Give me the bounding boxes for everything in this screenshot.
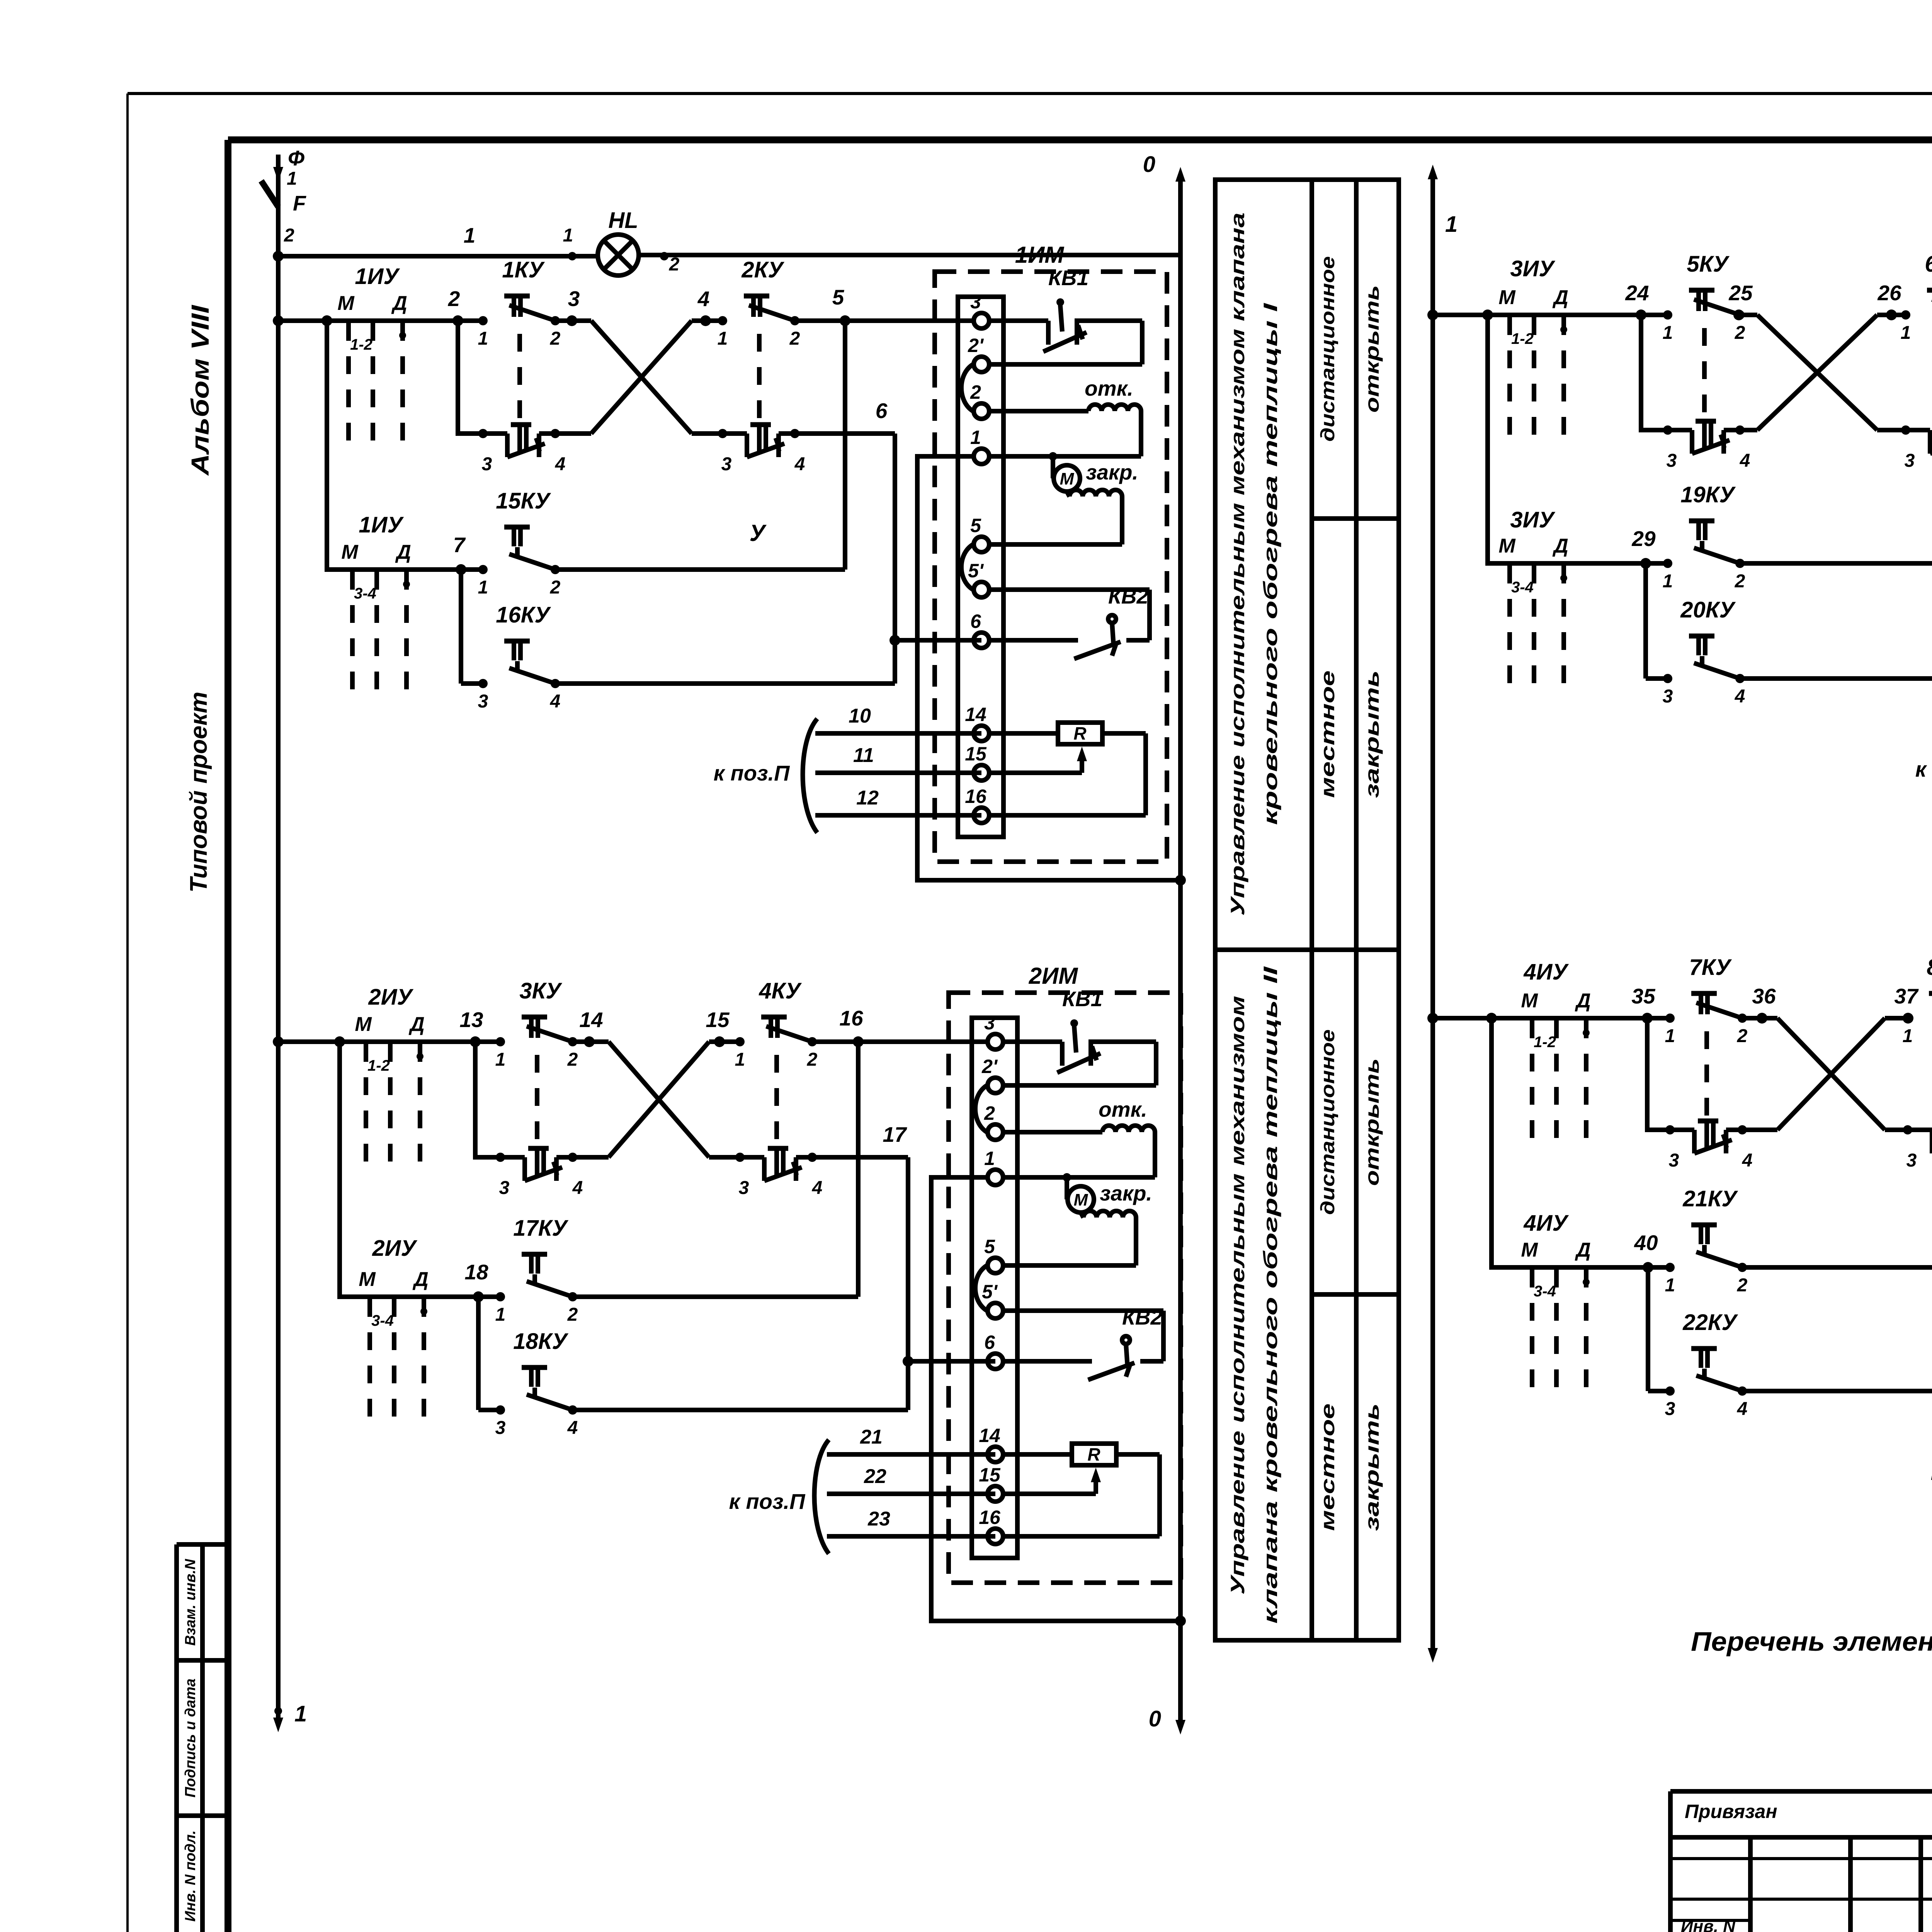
- svg-text:16: 16: [965, 786, 987, 807]
- svg-text:1: 1: [294, 1701, 307, 1726]
- resistor R of 1ИМ: [990, 723, 1146, 815]
- block2 remote open contact 17КУ: [464, 1216, 858, 1325]
- svg-text:клапана кровельного обогрева т: клапана кровельного обогрева теплицы II: [1260, 966, 1281, 1624]
- jumper bracket 2'-2 of 1ИМ: [961, 364, 973, 411]
- block3 remote close contact 20КУ: [1646, 597, 1932, 707]
- svg-text:1: 1: [1663, 323, 1673, 343]
- svg-text:F: F: [293, 191, 306, 215]
- svg-text:1: 1: [287, 168, 297, 189]
- svg-text:М: М: [355, 1013, 372, 1036]
- block1 actuator link 1КУ: [517, 334, 522, 423]
- svg-text:2: 2: [807, 1049, 818, 1070]
- svg-text:17КУ: 17КУ: [513, 1216, 568, 1241]
- svg-text:1: 1: [1901, 323, 1911, 343]
- block 1 feed junction: [273, 315, 284, 326]
- jumper bracket 2'-2 of 2ИМ: [975, 1085, 987, 1132]
- svg-text:КВ2: КВ2: [1108, 584, 1149, 608]
- svg-text:Д: Д: [391, 292, 407, 315]
- svg-text:11: 11: [853, 744, 874, 767]
- block2 contact 3КУ (1-2): [495, 978, 578, 1070]
- svg-text:2: 2: [550, 328, 561, 349]
- svg-text:открыть: открыть: [1361, 1058, 1383, 1186]
- svg-text:3: 3: [1906, 1150, 1917, 1171]
- block4 actuator link 7КУ: [1704, 1031, 1709, 1119]
- svg-text:КВ2: КВ2: [1122, 1305, 1163, 1329]
- svg-text:Д: Д: [395, 541, 411, 563]
- svg-text:3: 3: [721, 454, 732, 474]
- svg-text:8КУ: 8КУ: [1927, 955, 1932, 980]
- svg-text:2: 2: [984, 1102, 995, 1124]
- svg-text:1ИУ: 1ИУ: [355, 264, 400, 289]
- svg-text:20КУ: 20КУ: [1680, 597, 1736, 622]
- block4 remote close contact 22КУ: [1648, 1310, 1932, 1419]
- block4 lower contact row: [1647, 1018, 1777, 1130]
- svg-text:40: 40: [1634, 1231, 1658, 1255]
- terminal 1 return wire of 1ИМ to 0 bus: [917, 456, 1180, 880]
- svg-text:1ИМ: 1ИМ: [1015, 242, 1065, 268]
- left table section 1 text (теплица I): [1227, 213, 1383, 916]
- block1 vertical from node 5 down to remote row: [843, 321, 847, 570]
- svg-text:12: 12: [856, 787, 879, 809]
- svg-text:М: М: [1074, 1190, 1088, 1209]
- svg-text:открыть: открыть: [1361, 285, 1383, 413]
- svg-text:Д: Д: [408, 1013, 425, 1036]
- svg-text:3ИУ: 3ИУ: [1510, 507, 1555, 532]
- block2 actuator link 3КУ: [535, 1055, 539, 1146]
- svg-text:1: 1: [735, 1049, 745, 1070]
- block2 contact 4КУ (3-4): [709, 1148, 822, 1198]
- block1 wire row 1: [278, 287, 591, 326]
- block4 remote open contact 21КУ: [1634, 1186, 1932, 1296]
- svg-text:3: 3: [1905, 451, 1915, 471]
- block4 crossover wires: [1777, 1018, 1885, 1130]
- resistor R of 2ИМ: [1004, 1444, 1160, 1536]
- svg-text:5КУ: 5КУ: [1687, 252, 1730, 277]
- block2 wire row 1: [278, 1008, 609, 1047]
- svg-text:1-2: 1-2: [1511, 330, 1534, 347]
- svg-text:2: 2: [448, 287, 460, 311]
- svg-text:Ф: Ф: [288, 146, 304, 170]
- svg-text:Д: Д: [412, 1268, 429, 1291]
- block3 selector М/Д row 2: [1498, 535, 1568, 683]
- svg-text:Д: Д: [1575, 1239, 1591, 1261]
- svg-text:3: 3: [970, 291, 981, 313]
- svg-text:7КУ: 7КУ: [1689, 955, 1732, 980]
- svg-text:КВ1: КВ1: [1062, 987, 1102, 1011]
- actuator unit 1ИМ dashed enclosure: [935, 272, 1167, 862]
- svg-text:R: R: [1087, 1444, 1100, 1464]
- к поз. wires 32,33,34 of block 3: [1915, 699, 1932, 827]
- block1 wire 6 lower row to return vertical: [779, 399, 895, 684]
- svg-text:14: 14: [979, 1425, 1000, 1446]
- block2 wire 17 lower row to return vertical: [796, 1122, 908, 1410]
- coil отк. of 2ИМ: [1004, 1097, 1155, 1177]
- svg-text:23: 23: [867, 1508, 890, 1530]
- svg-text:отк.: отк.: [1085, 376, 1133, 400]
- svg-text:22КУ: 22КУ: [1682, 1310, 1738, 1335]
- block1 contact 1КУ (1-2): [478, 257, 561, 349]
- svg-text:1: 1: [1445, 212, 1458, 237]
- svg-text:HL: HL: [608, 208, 638, 233]
- svg-text:Взам. инв.N: Взам. инв.N: [182, 1558, 199, 1646]
- terminal strip of 2ИМ: [972, 1018, 1017, 1558]
- block4 node 37 and contact 8КУ (1-2): [1885, 955, 1932, 1046]
- svg-text:6: 6: [984, 1332, 995, 1353]
- block4 node 36: [1752, 984, 1776, 1024]
- svg-text:М: М: [341, 541, 359, 563]
- svg-text:кровельного обогрева теплицы: кровельного обогрева теплицы I: [1260, 303, 1281, 825]
- svg-text:1: 1: [1665, 1026, 1675, 1046]
- svg-text:6: 6: [876, 399, 888, 423]
- block4 contact 8КУ (3-4): [1885, 1121, 1932, 1171]
- svg-text:2ИУ: 2ИУ: [368, 985, 413, 1010]
- svg-text:М: М: [359, 1268, 376, 1291]
- svg-text:15: 15: [706, 1008, 730, 1032]
- block4 contact 7КУ (3-4): [1665, 1121, 1752, 1171]
- svg-text:3: 3: [1667, 451, 1677, 471]
- limit switch КВ2 of 1ИМ: [990, 584, 1150, 659]
- svg-text:1: 1: [718, 328, 728, 349]
- svg-text:2: 2: [550, 577, 561, 598]
- svg-text:1-2: 1-2: [1534, 1034, 1556, 1051]
- svg-text:6КУ: 6КУ: [1925, 252, 1932, 277]
- svg-text:4: 4: [812, 1178, 823, 1198]
- block2 lower contact row: [475, 1042, 609, 1157]
- block2 selector М/Д row 1: [355, 1013, 424, 1162]
- svg-text:15КУ: 15КУ: [496, 488, 551, 514]
- svg-text:2': 2': [968, 335, 984, 356]
- wire into terminal 3 of 2ИМ: [858, 1039, 995, 1044]
- block3 contact 6КУ (3-4): [1877, 421, 1932, 471]
- block3 wire row 1: [1433, 281, 1757, 320]
- signal lamp HL: [563, 208, 680, 276]
- svg-text:4: 4: [555, 454, 566, 474]
- svg-text:Д: Д: [1552, 535, 1568, 557]
- block1 lower contact row: [458, 321, 591, 434]
- svg-text:У: У: [750, 520, 767, 546]
- block2 remote close contact 18КУ: [478, 1329, 908, 1438]
- svg-text:2: 2: [567, 1049, 578, 1070]
- left main bus 1 vertical: [273, 256, 307, 1732]
- svg-text:15: 15: [979, 1464, 1001, 1486]
- motor M of 1ИМ: [990, 452, 1080, 492]
- node 2 junction: [273, 251, 284, 262]
- svg-text:3: 3: [482, 454, 492, 474]
- wire 1 to lamp: [278, 223, 598, 256]
- block2 node 15 and contact 4КУ (1-2): [706, 978, 817, 1070]
- svg-text:25: 25: [1728, 281, 1753, 305]
- block4 branch feed to remote row: [1486, 1013, 1674, 1267]
- svg-text:М: М: [1521, 990, 1538, 1012]
- block3 remote open contact 19КУ: [1631, 482, 1932, 592]
- svg-text:Инв. N: Инв. N: [1681, 1917, 1736, 1932]
- block2 vertical node 18 down to close row: [476, 1297, 481, 1410]
- svg-text:1ИУ: 1ИУ: [359, 512, 404, 537]
- coil закр. of 2ИМ: [1004, 1181, 1152, 1265]
- svg-text:2КУ: 2КУ: [741, 257, 784, 282]
- svg-text:1: 1: [495, 1049, 506, 1070]
- svg-text:Перечень элементов см. лист АТ: Перечень элементов см. лист АТХ1-27.: [1691, 1626, 1932, 1656]
- block2 node 16 wire to terminal 3: [812, 1006, 864, 1047]
- svg-text:15: 15: [965, 743, 987, 765]
- svg-text:1: 1: [1903, 1026, 1913, 1046]
- svg-text:закрыть: закрыть: [1361, 670, 1383, 798]
- svg-text:4: 4: [1737, 1399, 1748, 1419]
- svg-text:36: 36: [1752, 984, 1776, 1008]
- block3 node 26 and contact 6КУ (1-2): [1877, 252, 1932, 343]
- svg-text:1КУ: 1КУ: [502, 257, 545, 282]
- svg-text:5: 5: [984, 1236, 995, 1257]
- svg-text:дистанционное: дистанционное: [1317, 256, 1338, 442]
- block1 branch feed to remote row: [321, 315, 487, 570]
- block3 actuator link 5КУ: [1702, 328, 1707, 419]
- block 2 feed junction: [273, 1036, 284, 1047]
- svg-text:1: 1: [478, 577, 488, 598]
- svg-text:закр.: закр.: [1100, 1181, 1152, 1205]
- svg-text:1-2: 1-2: [350, 336, 372, 353]
- svg-text:26: 26: [1877, 281, 1901, 305]
- junction of wire 17 at terminal 6 row: [903, 1356, 913, 1367]
- block3 selector М/Д row 1: [1498, 286, 1568, 435]
- svg-text:3-4: 3-4: [1534, 1283, 1556, 1300]
- svg-text:3КУ: 3КУ: [519, 978, 562, 1003]
- svg-text:дистанционное: дистанционное: [1317, 1029, 1338, 1215]
- block4 selector М/Д row 1: [1521, 990, 1590, 1138]
- block1 contact 2КУ (3-4): [692, 425, 805, 474]
- limit switch КВ2 of 2ИМ: [1004, 1305, 1163, 1380]
- wire into terminal 6 of 2ИМ: [908, 1359, 995, 1364]
- svg-text:3: 3: [1663, 686, 1673, 707]
- left 0 bus vertical: [1143, 152, 1185, 1735]
- svg-text:1: 1: [1665, 1275, 1675, 1296]
- svg-text:3: 3: [568, 287, 580, 311]
- limit switch КВ1 of 2ИМ: [1003, 987, 1156, 1085]
- svg-text:35: 35: [1631, 984, 1656, 1008]
- svg-text:М: М: [337, 292, 355, 315]
- svg-text:1: 1: [1663, 571, 1673, 592]
- svg-text:5': 5': [982, 1281, 998, 1303]
- svg-text:16: 16: [839, 1006, 863, 1030]
- block2 selector М/Д row 2: [359, 1268, 428, 1417]
- svg-text:13: 13: [459, 1008, 483, 1032]
- svg-text:Управление исполнительным меха: Управление исполнительным механизмом кла…: [1227, 213, 1248, 916]
- svg-text:29: 29: [1631, 527, 1656, 551]
- svg-text:Альбом VIII: Альбом VIII: [186, 305, 214, 476]
- svg-text:10: 10: [849, 705, 871, 727]
- jumper bracket 5-5' of 2ИМ: [975, 1265, 987, 1311]
- svg-text:М: М: [1521, 1239, 1538, 1261]
- svg-text:16КУ: 16КУ: [496, 602, 551, 628]
- svg-text:4: 4: [567, 1418, 578, 1438]
- svg-text:закрыть: закрыть: [1361, 1403, 1383, 1531]
- svg-text:7: 7: [453, 533, 466, 557]
- title block: Привязан extension: [1670, 1791, 1932, 1932]
- svg-text:КВ1: КВ1: [1048, 266, 1088, 290]
- svg-text:местное: местное: [1317, 1403, 1338, 1531]
- svg-text:21: 21: [860, 1426, 883, 1448]
- block3 contact 5КУ (1-2): [1663, 252, 1745, 343]
- svg-text:4: 4: [1740, 451, 1750, 471]
- svg-text:2: 2: [567, 1304, 578, 1325]
- svg-text:18КУ: 18КУ: [513, 1329, 568, 1354]
- block1 remote close contact 16КУ: [461, 602, 895, 712]
- block4 vertical node 40 down to close row: [1646, 1267, 1650, 1391]
- svg-text:3: 3: [1669, 1150, 1679, 1171]
- block3 vertical node 29 down to close row: [1643, 563, 1648, 679]
- svg-text:4: 4: [794, 454, 805, 474]
- svg-text:2: 2: [789, 328, 800, 349]
- svg-text:Инв. N подл.: Инв. N подл.: [182, 1830, 199, 1922]
- svg-text:Типовой проект: Типовой проект: [185, 692, 212, 893]
- svg-text:1-2: 1-2: [367, 1057, 390, 1074]
- к поз.П wires 21,22,23 of block 2: [729, 1426, 995, 1554]
- coil закр. of 1ИМ: [990, 460, 1138, 544]
- block1 crossover wires: [591, 321, 692, 434]
- wire from 6-vertical into terminal 6: [895, 638, 981, 643]
- block1 vertical node 7 down to close row: [459, 570, 463, 684]
- svg-text:18: 18: [464, 1260, 488, 1284]
- block 3 feed junction: [1427, 310, 1438, 320]
- svg-text:5': 5': [968, 560, 984, 582]
- svg-text:1: 1: [464, 223, 476, 247]
- block2 actuator link 4КУ: [774, 1055, 779, 1146]
- wire into terminal 3 of 1ИМ: [845, 318, 981, 323]
- block4 contact 7КУ (1-2): [1665, 955, 1748, 1046]
- svg-text:5: 5: [832, 285, 845, 309]
- svg-text:14: 14: [965, 704, 986, 725]
- svg-text:2: 2: [1737, 1275, 1748, 1296]
- svg-text:к поз.П: к поз.П: [729, 1489, 806, 1514]
- block3 contact 5КУ (3-4): [1663, 421, 1750, 471]
- actuator unit 2ИМ dashed enclosure: [949, 993, 1181, 1583]
- svg-text:0: 0: [1149, 1706, 1161, 1731]
- fuse F: [261, 181, 306, 256]
- svg-text:1: 1: [495, 1304, 506, 1325]
- svg-text:закр.: закр.: [1086, 460, 1138, 484]
- svg-text:4: 4: [697, 287, 710, 311]
- svg-text:1: 1: [478, 328, 488, 349]
- block1 remote open contact 15КУ: [453, 488, 845, 598]
- svg-text:2: 2: [1735, 571, 1745, 592]
- block3 branch feed to remote row: [1482, 310, 1672, 563]
- к поз. wires 43,44,45 of block 4: [1931, 1402, 1932, 1530]
- svg-text:3-4: 3-4: [371, 1312, 394, 1329]
- svg-text:к поз.П: к поз.П: [714, 761, 790, 785]
- block 4 feed junction: [1427, 1013, 1438, 1024]
- svg-text:Привязан: Привязан: [1685, 1801, 1777, 1822]
- svg-text:2: 2: [1735, 323, 1745, 343]
- block3 crossover wires: [1757, 315, 1877, 430]
- block1 selector М/Д row 1: [337, 292, 407, 440]
- block4 selector М/Д row 2: [1521, 1239, 1590, 1387]
- svg-text:3-4: 3-4: [1511, 579, 1534, 596]
- svg-text:2: 2: [970, 381, 981, 403]
- svg-text:21КУ: 21КУ: [1682, 1186, 1738, 1211]
- block1 actuator link 2КУ: [757, 334, 762, 423]
- svg-text:3ИУ: 3ИУ: [1510, 256, 1555, 281]
- svg-text:4: 4: [550, 691, 561, 712]
- svg-text:14: 14: [579, 1008, 603, 1032]
- svg-text:3: 3: [739, 1178, 749, 1198]
- terminals 3,2',2,1,5,5',6,14,15,16 of 2ИМ: [979, 1012, 1003, 1544]
- block2 contact 3КУ (3-4): [496, 1148, 583, 1198]
- right half bus 1 vertical: [1428, 165, 1458, 1663]
- svg-text:6: 6: [970, 611, 981, 632]
- svg-text:4: 4: [1742, 1150, 1753, 1171]
- svg-text:М: М: [1060, 469, 1075, 488]
- svg-text:3: 3: [495, 1418, 506, 1438]
- block2 branch feed to remote row: [334, 1036, 504, 1297]
- svg-text:1: 1: [563, 225, 573, 246]
- svg-text:37: 37: [1894, 984, 1919, 1008]
- svg-text:3-4: 3-4: [354, 585, 376, 602]
- block3 node 25: [1728, 281, 1753, 320]
- svg-text:22: 22: [864, 1465, 886, 1488]
- block4 wire row 1: [1433, 984, 1777, 1024]
- block2 node 14: [579, 1008, 603, 1047]
- left table section 2 text (теплица II): [1227, 966, 1383, 1624]
- svg-text:4ИУ: 4ИУ: [1523, 1211, 1569, 1236]
- terminals 3,2',2,1,5,5',6,14,15,16 of 1ИМ: [965, 291, 989, 823]
- svg-text:4КУ: 4КУ: [759, 978, 802, 1003]
- jumper bracket 5-5' of 1ИМ: [961, 544, 973, 590]
- svg-text:3: 3: [1665, 1399, 1675, 1419]
- svg-text:М: М: [1498, 286, 1516, 309]
- svg-text:Д: Д: [1575, 990, 1591, 1012]
- svg-text:3: 3: [478, 691, 488, 712]
- svg-text:1: 1: [984, 1148, 995, 1169]
- phase input Ф with arrow: [273, 146, 304, 189]
- block1 node 5 wire to terminal 3: [795, 285, 850, 326]
- svg-text:4: 4: [572, 1178, 583, 1198]
- svg-text:4ИУ: 4ИУ: [1523, 959, 1569, 985]
- svg-text:Подпись и дата: Подпись и дата: [182, 1679, 199, 1798]
- block1 selector М/Д row 2: [341, 541, 411, 689]
- svg-text:3: 3: [499, 1178, 510, 1198]
- block2 crossover wires: [609, 1042, 709, 1157]
- svg-text:5: 5: [970, 515, 981, 536]
- svg-text:3: 3: [984, 1012, 995, 1034]
- left description table frame: [1215, 180, 1399, 1640]
- svg-text:2': 2': [981, 1056, 998, 1077]
- block1 contact 1КУ (3-4): [478, 425, 565, 474]
- svg-text:2ИМ: 2ИМ: [1029, 963, 1079, 989]
- svg-text:24: 24: [1625, 281, 1649, 305]
- к поз.П wires 10,11,12 of block 1: [714, 705, 981, 833]
- svg-text:1: 1: [970, 427, 981, 448]
- junction of wire 6 at terminal 6 row: [889, 635, 900, 646]
- svg-text:Управление исполнительным меха: Управление исполнительным механизмом: [1227, 996, 1248, 1595]
- coil отк. of 1ИМ: [990, 376, 1141, 456]
- motor M of 2ИМ: [1004, 1173, 1094, 1213]
- sidebar stamp boxes: [177, 1544, 231, 1932]
- svg-text:местное: местное: [1317, 670, 1338, 798]
- wire lamp to 0 bus: [638, 253, 1180, 257]
- block1 node 4 and contact 2КУ (1-2): [692, 257, 800, 349]
- svg-text:17: 17: [883, 1122, 907, 1146]
- block3 lower contact row: [1641, 315, 1757, 430]
- svg-text:2ИУ: 2ИУ: [372, 1236, 417, 1261]
- svg-text:4: 4: [1735, 686, 1745, 707]
- svg-text:R: R: [1073, 723, 1086, 743]
- svg-text:Д: Д: [1552, 286, 1568, 309]
- svg-text:0: 0: [1143, 152, 1155, 177]
- svg-text:отк.: отк.: [1099, 1097, 1147, 1121]
- svg-text:16: 16: [979, 1507, 1001, 1528]
- limit switch КВ1 of 1ИМ: [989, 266, 1142, 364]
- svg-text:М: М: [1498, 535, 1516, 557]
- svg-text:к поз.: к поз.: [1915, 757, 1932, 781]
